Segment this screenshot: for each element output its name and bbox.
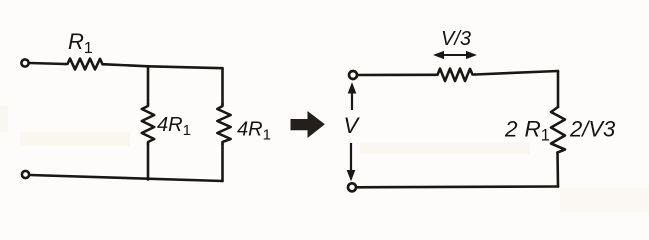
wire right vertical top lead bbox=[557, 71, 560, 107]
arrow V up bbox=[348, 84, 355, 111]
wire right vertical bottom lead bbox=[556, 153, 559, 187]
wire top middle bbox=[105, 64, 223, 68]
wire bottom left circuit bbox=[30, 175, 223, 181]
wire 4R1-a top lead bbox=[147, 66, 150, 104]
svg-text:2/V3: 2/V3 bbox=[569, 117, 616, 142]
dimension arrow V/3 bbox=[435, 52, 476, 59]
wire top-left lead bbox=[30, 63, 66, 64]
terminal right-circuit bottom-left bbox=[348, 183, 356, 191]
resistor R1 bbox=[65, 59, 105, 70]
resistor 2R1 bbox=[551, 107, 565, 153]
wire right vertical bottom lead bbox=[221, 144, 224, 181]
svg-text:V: V bbox=[344, 113, 361, 138]
wire right vertical top lead bbox=[221, 68, 224, 104]
scan smudge bottom mid bbox=[360, 142, 530, 154]
svg-text:V/3: V/3 bbox=[441, 28, 471, 50]
wire right circuit bottom bbox=[357, 185, 559, 188]
wire right circuit top bbox=[358, 74, 436, 77]
wire 4R1-a bottom lead bbox=[147, 144, 150, 180]
scan smudge left bbox=[0, 106, 8, 132]
terminal left-bottom bbox=[22, 171, 29, 178]
terminal left-top bbox=[21, 59, 28, 66]
resistor V/3 bbox=[435, 69, 475, 81]
resistor 4R1-a bbox=[142, 104, 154, 144]
block arrow between circuits bbox=[291, 112, 324, 137]
wire top right segment bbox=[475, 71, 558, 75]
arrow V down bbox=[347, 143, 354, 180]
resistor 4R1-b bbox=[217, 104, 230, 144]
terminal right-circuit top-left bbox=[349, 71, 357, 79]
